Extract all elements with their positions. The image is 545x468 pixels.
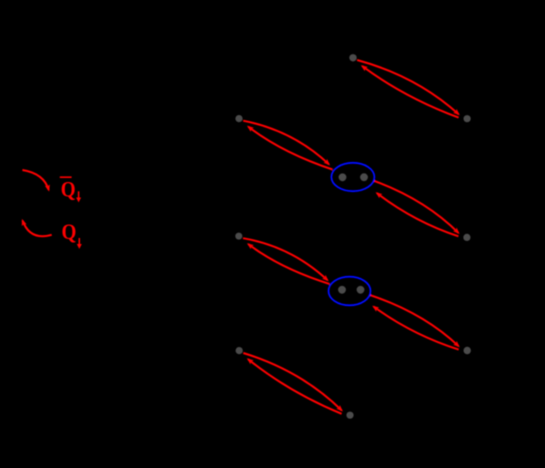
svg-text:Q: Q xyxy=(61,178,76,201)
svg-text:Q: Q xyxy=(62,221,77,244)
